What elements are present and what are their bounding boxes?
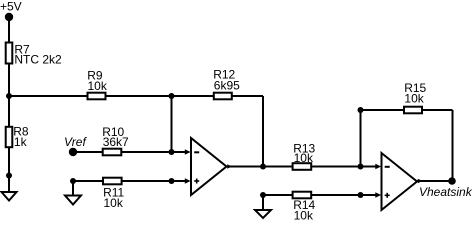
op-amp U1 — [191, 138, 227, 195]
wire R12 right corner down — [262, 96, 264, 167]
wire top horizontal — [9, 95, 263, 97]
wire feedback right down to output — [452, 110, 454, 181]
resistor R10 body — [103, 149, 122, 156]
ground G3 — [255, 210, 271, 218]
resistor R14 body — [293, 192, 312, 199]
node left rail lower junction dot — [6, 173, 12, 179]
wire U1 output to U2 inverting input — [227, 166, 379, 168]
pin arrow U1 non-inverting input — [185, 178, 191, 184]
wire G2 stem — [72, 181, 74, 196]
node +5V terminal dot — [5, 13, 13, 21]
wire Vref to U1 inverting input — [73, 151, 188, 153]
svg-text:Vheatsink: Vheatsink — [419, 185, 473, 199]
svg-text:+5V: +5V — [0, 0, 22, 14]
svg-text:1k: 1k — [14, 135, 28, 149]
pin arrow U2 inverting input — [375, 164, 381, 170]
wire ground to U1 non-inverting input — [73, 180, 188, 182]
svg-text:10k: 10k — [104, 196, 124, 210]
resistor R12 body — [214, 93, 232, 100]
node inverting input junction dot — [169, 149, 175, 155]
svg-text:10k: 10k — [294, 151, 314, 165]
wire G3 stem — [262, 195, 264, 210]
node feedback junction dot — [358, 107, 364, 113]
op-amp U1 minus sign — [194, 151, 199, 153]
svg-text:10k: 10k — [404, 91, 424, 105]
op-amp U2 — [382, 153, 418, 210]
wire feedback top horizontal — [361, 109, 453, 111]
svg-text:Vref: Vref — [64, 135, 87, 149]
wire J1 down to inverting input — [171, 96, 173, 152]
node U1 output junction dot — [260, 164, 266, 170]
resistor R13 body — [293, 163, 312, 170]
node U2 inverting junction dot — [358, 164, 364, 170]
pin arrow U2 non-inverting input — [375, 192, 381, 198]
svg-text:36k7: 36k7 — [103, 135, 129, 149]
node R14 left junction dot — [260, 192, 266, 198]
node Vref terminal dot — [69, 148, 77, 156]
ground G1 — [2, 192, 17, 201]
wire feedback down to inverting input — [360, 110, 362, 167]
op-amp U2 minus sign — [385, 166, 390, 168]
wire left rail vertical — [8, 17, 10, 192]
node J1 junction dot — [169, 93, 175, 99]
resistor R9 body — [88, 93, 106, 100]
wire ground to U2 non-inverting input — [263, 194, 378, 196]
node A junction dot — [6, 93, 12, 99]
wire U2 output — [417, 180, 453, 182]
resistor R11 body — [103, 178, 122, 185]
node U1 non-inverting junction dot — [169, 178, 175, 184]
ground G2 — [65, 196, 81, 205]
svg-text:10k: 10k — [88, 79, 108, 93]
pin arrow U1 inverting input — [185, 149, 191, 155]
resistor R8 body — [6, 127, 13, 147]
node Vheatsink terminal dot — [448, 177, 456, 185]
resistor R15 body — [404, 107, 422, 114]
pin arrow U1 output — [227, 164, 232, 168]
pin arrow U2 output — [418, 179, 423, 183]
svg-text:6k95: 6k95 — [214, 78, 240, 92]
svg-text:NTC 2k2: NTC 2k2 — [14, 53, 62, 67]
svg-text:10k: 10k — [294, 209, 314, 223]
node U2 non-inverting junction dot — [358, 192, 364, 198]
op-amp U2 plus sign — [385, 194, 390, 196]
node R11 left junction dot — [70, 178, 76, 184]
resistor R7 body — [6, 43, 13, 64]
op-amp U1 plus sign — [194, 180, 199, 182]
